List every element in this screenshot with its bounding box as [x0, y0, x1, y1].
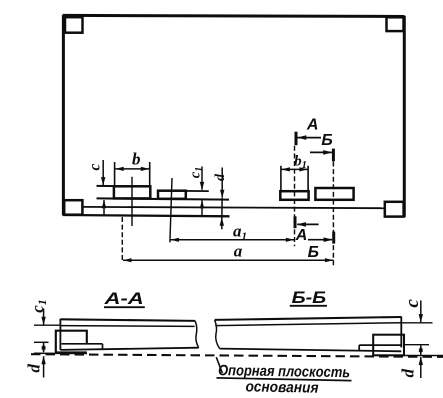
svg-text:d: d: [213, 173, 228, 181]
svg-text:c1: c1: [28, 299, 49, 313]
svg-text:А-А: А-А: [103, 289, 143, 308]
svg-text:b: b: [132, 149, 141, 168]
svg-text:b1: b1: [294, 154, 307, 172]
svg-text:c: c: [402, 299, 423, 308]
svg-text:А: А: [306, 116, 319, 133]
svg-text:Б: Б: [321, 132, 332, 149]
svg-text:основания: основания: [245, 378, 318, 396]
svg-text:d: d: [399, 369, 418, 378]
svg-text:a1: a1: [233, 222, 247, 243]
svg-text:c1: c1: [188, 167, 206, 178]
svg-text:Б-Б: Б-Б: [292, 288, 327, 307]
svg-text:a: a: [234, 241, 243, 260]
svg-text:d: d: [25, 364, 44, 373]
svg-text:А: А: [295, 227, 308, 244]
svg-text:c: c: [87, 163, 104, 170]
svg-text:Б: Б: [308, 244, 319, 261]
